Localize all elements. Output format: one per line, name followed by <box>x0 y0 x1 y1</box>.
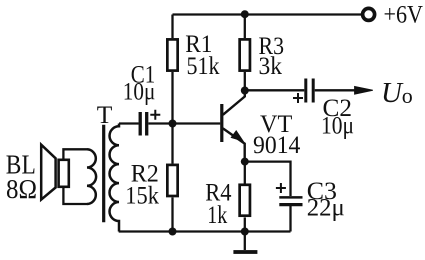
capacitor C1 plates <box>140 112 147 136</box>
svg-text:10μ: 10μ <box>321 111 354 140</box>
transformer T core <box>102 125 105 223</box>
svg-text:8Ω: 8Ω <box>6 173 37 204</box>
wire R4 top lead <box>244 162 246 185</box>
svg-text:o: o <box>402 83 413 108</box>
transistor VT emitter arrow <box>231 131 243 141</box>
wire R2 bottom lead <box>171 198 173 232</box>
svg-text:51k: 51k <box>187 51 220 80</box>
polarity plus of C2 <box>293 93 303 103</box>
capacitor C3 plates <box>279 196 302 199</box>
speaker BL driver <box>59 160 69 187</box>
svg-text:22μ: 22μ <box>307 193 345 222</box>
node collector <box>241 87 249 95</box>
wire R4 bottom lead <box>244 217 246 231</box>
wire R3 top lead <box>244 15 246 39</box>
transistor VT base bar <box>220 104 223 142</box>
transformer T primary winding <box>87 149 96 204</box>
wire base lead <box>173 122 221 124</box>
wire C2 to output arrow <box>315 89 356 91</box>
svg-text:15k: 15k <box>125 181 159 210</box>
speaker BL horn <box>41 145 55 200</box>
ground <box>244 232 246 251</box>
wire C1 right lead <box>148 122 172 124</box>
wire emitter to C3 <box>245 162 291 196</box>
wire top rail <box>173 13 362 15</box>
wire speaker bottom stub <box>63 187 87 204</box>
svg-text:10μ: 10μ <box>123 77 156 106</box>
wire C1 left lead <box>119 122 139 124</box>
node top of R3 <box>241 10 249 18</box>
svg-text:+6V: +6V <box>384 0 424 29</box>
wire R1 top lead <box>171 15 173 39</box>
wire R1 bottom lead <box>171 72 173 124</box>
node R2 bottom <box>169 228 177 236</box>
capacitor C2 plates <box>306 79 313 103</box>
svg-text:3k: 3k <box>259 51 283 80</box>
polarity plus of C1 <box>150 110 160 120</box>
node ground junction <box>241 228 249 236</box>
node emitter <box>241 158 249 166</box>
transformer T secondary winding <box>110 124 119 232</box>
wire bottom rail <box>119 230 291 232</box>
output arrowhead <box>355 87 373 95</box>
svg-text:U: U <box>381 77 404 109</box>
svg-text:1k: 1k <box>207 200 227 229</box>
polarity plus of C3 <box>276 183 286 193</box>
wire R2 top lead <box>171 124 173 164</box>
resistor R1 <box>167 39 177 70</box>
wire R3 bottom lead <box>244 72 246 91</box>
node C1/R1/R2/base junction <box>169 120 177 128</box>
resistor R4 <box>240 185 250 216</box>
wire collector to C2 <box>245 89 304 91</box>
svg-text:9014: 9014 <box>253 130 301 159</box>
transistor VT emitter lead <box>223 128 245 161</box>
resistor R3 <box>240 39 250 70</box>
wire speaker top stub <box>63 149 87 160</box>
transistor VT collector lead <box>223 91 245 115</box>
resistor R2 <box>167 165 177 196</box>
svg-text:T: T <box>97 100 113 129</box>
terminal +6V <box>363 8 375 20</box>
wire C3 bottom lead <box>289 206 291 232</box>
